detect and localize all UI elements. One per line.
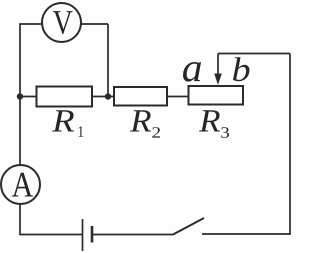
voltmeter label V xyxy=(53,11,73,34)
resistor R1 xyxy=(37,87,93,107)
resistor R2 xyxy=(114,87,167,106)
wire: node A to R1 xyxy=(20,96,37,98)
label R2 subscript 2 xyxy=(152,127,160,137)
label R2 xyxy=(130,110,151,131)
label R1 xyxy=(52,110,74,131)
label R3 subscript 3 xyxy=(221,127,229,138)
wire: left vertical below ammeter xyxy=(19,203,21,235)
wire: R1 to R2 xyxy=(92,96,114,98)
node B (junction dot right of R1) xyxy=(105,93,111,99)
wire: R2 to R3 xyxy=(167,96,189,98)
wire: left vertical top (voltmeter branch to node) xyxy=(19,24,21,167)
rheostat wiper arrowhead xyxy=(214,74,222,86)
battery BT1 short plate xyxy=(91,226,94,243)
label a (rheostat left terminal) xyxy=(183,62,201,82)
wire: voltmeter right lead xyxy=(81,23,108,25)
label R1 subscript 1 xyxy=(78,126,83,136)
rheostat wiper arrow shaft xyxy=(217,54,219,77)
wire: bottom wire left segment to battery xyxy=(20,234,82,236)
wire: top wire from wiper to right side xyxy=(218,53,290,55)
label R3 xyxy=(199,110,220,131)
wire: right vertical xyxy=(289,54,291,235)
label b (rheostat right terminal) xyxy=(233,57,249,81)
switch S (open blade) xyxy=(173,218,204,235)
wire: vertical from voltmeter right lead down to node B xyxy=(107,24,109,97)
wire: bottom wire between battery and switch xyxy=(92,234,174,236)
resistor R3 (rheostat body) xyxy=(189,86,244,105)
ammeter label A xyxy=(12,173,33,197)
wire: voltmeter left lead xyxy=(19,23,43,25)
wire: bottom wire right segment xyxy=(202,233,291,235)
battery BT1 long plate xyxy=(82,219,84,251)
node A (left junction dot) xyxy=(17,93,23,99)
voltmeter U1 circle xyxy=(42,3,81,42)
ammeter U2 circle xyxy=(1,165,40,204)
